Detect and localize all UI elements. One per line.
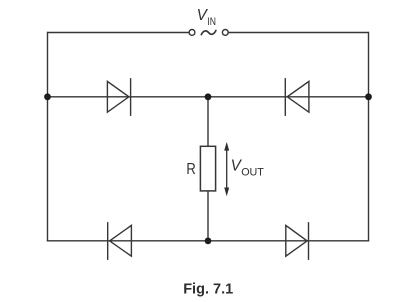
svg-text:Fig. 7.1: Fig. 7.1 [183,282,233,298]
wire resistor bottom [207,191,209,241]
diode D4 bottom-right (anode left, cathode right) [286,222,309,260]
label Vout [231,158,265,179]
wire top-right segment [229,32,369,34]
wire left rail [47,32,49,242]
node junction right-mid [365,93,372,100]
ac source terminal left [189,30,195,36]
wire bottom rail [47,240,369,242]
diode D1 top-left (anode left, cathode right) [107,78,130,116]
wire middle rail [48,96,369,98]
svg-text:R: R [186,161,195,178]
node junction left-mid [44,93,51,100]
node junction center-mid [205,93,212,100]
svg-text:OUT: OUT [241,167,264,179]
Vout arrow (double-headed) [224,142,229,196]
resistor R (box) [200,146,215,191]
diode D3 bottom-left (anode right, cathode left) [108,222,132,260]
svg-text:IN: IN [207,16,216,28]
node junction center-bottom [205,238,212,245]
wire top-left segment [48,32,190,34]
label Vin [197,7,216,28]
ac source terminal right [222,30,228,36]
wire resistor top [207,97,209,147]
diode D2 top-right (anode right, cathode left) [285,78,309,116]
ac source tilde symbol [201,31,216,35]
wire right rail [368,32,370,242]
